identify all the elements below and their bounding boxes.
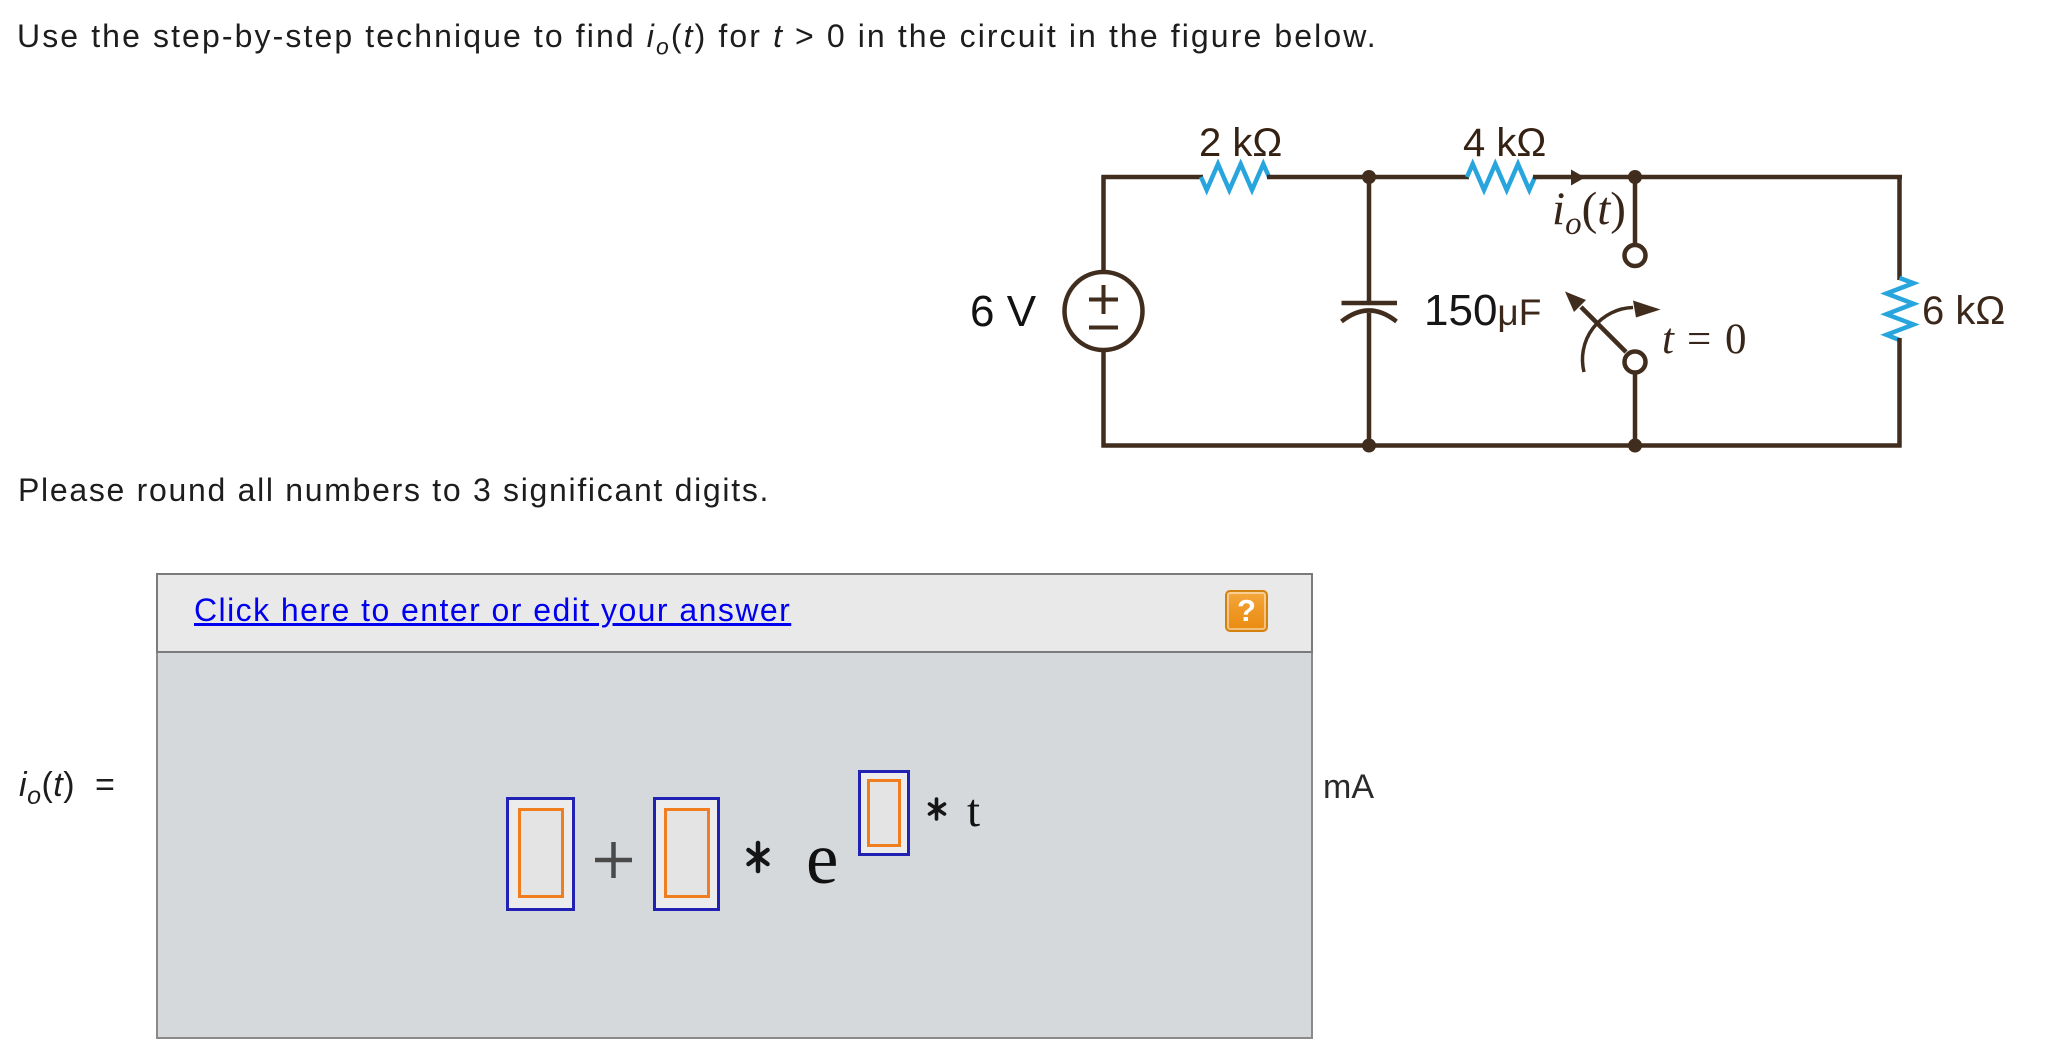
capacitor C1 curved bottom plate — [1342, 311, 1397, 322]
switch SW1 blade arrowhead — [1565, 292, 1586, 313]
instruction text — [18, 472, 770, 509]
switch SW1 motion arc — [1582, 308, 1633, 373]
switch SW1 top terminal circle — [1625, 245, 1646, 266]
svg-text:4 kΩ: 4 kΩ — [1463, 121, 1546, 165]
capacitor C1 top plate — [1342, 301, 1398, 306]
svg-text:6 V: 6 V — [970, 287, 1037, 336]
exponent asterisk — [927, 797, 949, 821]
e (exponential) — [806, 822, 838, 895]
wire right side top — [1897, 175, 1902, 280]
node C junction dot — [1362, 439, 1376, 453]
switch SW1 bottom lead wire — [1633, 372, 1638, 447]
capacitor C1 bottom lead wire — [1367, 313, 1372, 447]
io(t) = label — [19, 766, 115, 811]
wire right side bottom — [1897, 338, 1902, 448]
svg-text:6 kΩ: 6 kΩ — [1922, 289, 2005, 333]
switch SW1 bottom terminal circle — [1625, 352, 1646, 373]
switch SW1 blade — [1581, 307, 1626, 352]
formula: second input box — [653, 797, 720, 911]
heading text — [17, 18, 1378, 60]
voltage source V1 circle — [1065, 272, 1143, 350]
wire from 4k resistor to node B — [1533, 175, 1902, 180]
resistor 6 kΩ vertical zigzag — [1887, 278, 1914, 340]
wire top-left segment — [1102, 175, 1204, 180]
switch SW1 top lead wire — [1633, 177, 1638, 244]
exponent t — [967, 784, 980, 838]
svg-text:io(t): io(t) — [1552, 183, 1626, 242]
formula: first input box — [506, 797, 575, 911]
switch SW1 motion arc arrowhead — [1633, 301, 1661, 318]
svg-text:t=0: t=0 — [1662, 316, 1747, 363]
formula: exponent input box — [858, 770, 910, 856]
voltage source plus sign — [1089, 298, 1118, 302]
wire bottom — [1102, 443, 1902, 448]
times asterisk — [745, 840, 775, 874]
wire left top — [1101, 175, 1106, 272]
resistor 2 kΩ zigzag — [1201, 164, 1269, 190]
answer body box — [156, 653, 1313, 1039]
wire left bottom — [1101, 350, 1106, 448]
svg-text:150μF: 150μF — [1424, 286, 1541, 335]
help button — [1225, 590, 1268, 632]
unit mA — [1323, 768, 1374, 807]
plus sign — [590, 835, 640, 885]
node B junction dot — [1628, 170, 1642, 184]
capacitor C1 top lead wire — [1367, 177, 1372, 301]
wire top-middle segment — [1267, 175, 1469, 180]
current direction arrowhead io(t) — [1571, 170, 1585, 186]
resistor 4 kΩ zigzag — [1467, 164, 1535, 190]
answer header box — [156, 573, 1313, 653]
svg-text:2 kΩ: 2 kΩ — [1199, 121, 1282, 165]
voltage source minus sign — [1089, 326, 1118, 330]
answer link — [194, 592, 791, 629]
node D junction dot — [1628, 439, 1642, 453]
node A junction dot — [1362, 170, 1376, 184]
